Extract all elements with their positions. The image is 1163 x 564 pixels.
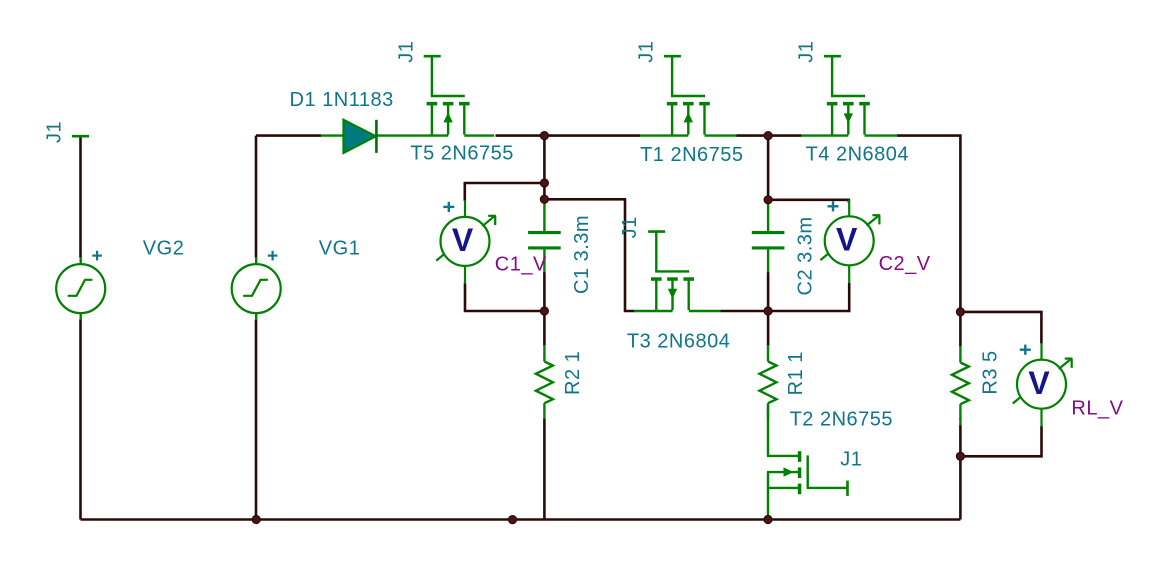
svg-text:T3 2N6804: T3 2N6804: [627, 331, 730, 353]
svg-text:J1: J1: [840, 449, 862, 471]
svg-text:T1 2N6755: T1 2N6755: [640, 144, 743, 166]
svg-text:J1: J1: [395, 41, 417, 63]
svg-text:R3 5: R3 5: [980, 350, 1002, 394]
svg-text:C1_V: C1_V: [495, 254, 547, 276]
svg-text:T2 2N6755: T2 2N6755: [790, 409, 893, 431]
svg-text:T4 2N6804: T4 2N6804: [806, 144, 909, 166]
svg-text:C2 3.3m: C2 3.3m: [794, 216, 816, 295]
svg-text:R1 1: R1 1: [785, 351, 807, 395]
svg-text:C2_V: C2_V: [879, 253, 931, 275]
svg-text:J1: J1: [635, 41, 657, 63]
svg-text:VG1: VG1: [319, 238, 361, 260]
svg-text:C1 3.3m: C1 3.3m: [571, 215, 593, 294]
svg-text:T5 2N6755: T5 2N6755: [410, 143, 513, 165]
svg-text:VG2: VG2: [143, 238, 185, 260]
svg-text:J1: J1: [44, 121, 66, 143]
svg-text:RL_V: RL_V: [1071, 398, 1123, 420]
svg-text:J1: J1: [619, 216, 641, 238]
svg-text:D1 1N1183: D1 1N1183: [290, 89, 394, 111]
svg-text:R2 1: R2 1: [562, 351, 584, 395]
svg-text:J1: J1: [795, 41, 817, 63]
